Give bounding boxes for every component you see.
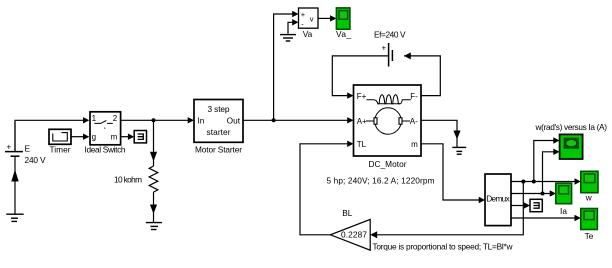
label Te: [585, 231, 594, 241]
wire: ground to Va - input: [288, 19, 299, 34]
wire: node down to resistor: [150, 120, 157, 166]
wire: battery Ef left to F+: [332, 56, 388, 99]
wire: F- up to battery Ef right (arrow into battery): [404, 52, 441, 95]
node junction (Out / Va tap): [272, 118, 276, 122]
label Ia: [560, 206, 567, 216]
label Ef=240 V: [374, 30, 406, 40]
svg-text:m: m: [411, 140, 418, 149]
svg-text:Out: Out: [227, 116, 241, 126]
terminator (demux out3): [530, 199, 542, 211]
scope w: [581, 171, 598, 192]
current arrow up: [11, 170, 18, 182]
Ideal Switch block: [90, 112, 121, 145]
node junction (Ia / XY riser): [541, 192, 545, 196]
svg-text:A+: A+: [357, 117, 367, 126]
svg-text:Timer: Timer: [50, 144, 71, 154]
ground (armature): [452, 147, 466, 154]
voltage measurement Va: [299, 8, 319, 28]
svg-text:240 V: 240 V: [25, 155, 46, 165]
svg-text:Te: Te: [585, 231, 594, 241]
svg-text:Ideal Switch: Ideal Switch: [85, 144, 126, 154]
DC motor block: [354, 85, 422, 156]
label Va: [303, 29, 313, 39]
svg-text:5 hp; 240V; 16.2 A; 1220rpm: 5 hp; 240V; 16.2 A; 1220rpm: [327, 176, 435, 186]
label 10 kohm: [114, 174, 142, 184]
wire: DC motor m to Demux: [421, 144, 485, 203]
svg-text:+: +: [301, 10, 306, 19]
label E: [25, 144, 31, 154]
wire: resistor to ground: [150, 192, 157, 223]
label Motor Starter: [195, 144, 242, 154]
svg-text:Va: Va: [303, 29, 313, 39]
svg-text:In: In: [198, 116, 205, 126]
Motor Starter block: [194, 100, 243, 143]
wire: Ideal Switch out to Motor Starter In: [121, 117, 194, 123]
svg-text:v: v: [310, 15, 314, 24]
resistor 10 kohm: [149, 166, 158, 192]
svg-text:Ia: Ia: [560, 206, 567, 216]
svg-text:Va_: Va_: [336, 29, 351, 39]
scope Ia: [556, 183, 572, 204]
battery Ef (field source): [389, 43, 393, 67]
svg-text:2: 2: [113, 114, 118, 123]
svg-text:TL: TL: [357, 140, 367, 149]
wire: Timer to Ideal Switch g: [71, 134, 89, 140]
battery E plus sign: [7, 143, 12, 152]
svg-text:+: +: [382, 44, 387, 53]
wire: A- to ground: [421, 120, 461, 147]
ground (battery E): [6, 214, 23, 221]
svg-text:DC_Motor: DC_Motor: [369, 159, 407, 169]
svg-text:E: E: [25, 144, 31, 154]
svg-text:Ef=240 V: Ef=240 V: [374, 30, 406, 40]
label w: [585, 192, 593, 202]
annotation: torque note: [373, 242, 514, 252]
battery Ef plus sign: [382, 44, 387, 53]
svg-text:F-: F-: [410, 92, 418, 101]
scope Va_: [336, 8, 350, 29]
wire: Demux out3 to terminator: [511, 202, 530, 208]
wire: Demux out2 (Ia) to scope Ia: [511, 190, 556, 196]
svg-text:g: g: [92, 133, 96, 142]
svg-text:10 kohm: 10 kohm: [114, 174, 142, 184]
wire: BL out up to TL input: [300, 141, 354, 235]
svg-text:m: m: [111, 133, 118, 142]
wire: Va v to scope Va_: [318, 15, 336, 21]
svg-text:1: 1: [92, 114, 97, 123]
wire: battery top rail to Ideal Switch port 1: [15, 117, 89, 152]
label Va_: [336, 29, 351, 39]
wire: w riser to XY scope input 1: [534, 137, 560, 181]
svg-text:A-: A-: [410, 117, 418, 126]
svg-text:BL: BL: [342, 208, 353, 218]
label DC_Motor: [369, 159, 407, 169]
field inductor icon: [367, 95, 411, 104]
scope Te: [581, 209, 598, 230]
wire: Ideal Switch m to terminator: [121, 134, 134, 140]
wire: tap up to Va + input: [274, 11, 299, 121]
terminator (switch m): [134, 131, 146, 143]
svg-text:w: w: [585, 192, 593, 202]
svg-text:Motor Starter: Motor Starter: [195, 144, 242, 154]
gain BL: [330, 219, 370, 250]
label w(rad's) versus Ia (A): [535, 122, 608, 132]
Demux block: [485, 174, 511, 226]
battery E (DC source): [5, 122, 23, 214]
ground (resistor): [146, 223, 162, 230]
svg-text:Demux: Demux: [486, 194, 510, 204]
armature icon: [375, 108, 401, 134]
label Ideal Switch: [85, 144, 126, 154]
svg-text:3 step: 3 step: [208, 104, 230, 114]
XY scope (w versus Ia): [560, 134, 583, 159]
wire: Motor Starter Out to DC motor A+: [243, 117, 354, 123]
svg-text:+: +: [7, 143, 12, 152]
ground (Va measurement): [280, 35, 296, 41]
Timer block: [49, 129, 71, 144]
node junction (w / XY riser): [532, 180, 536, 184]
wire: w feedback down and left to gain BL: [370, 182, 523, 239]
node junction (w / feedback): [521, 180, 525, 184]
wire: Demux out1 (w) to scope w: [511, 178, 581, 184]
value 240 V: [25, 155, 46, 165]
svg-text:0.2287: 0.2287: [341, 229, 367, 239]
svg-text:F+: F+: [357, 92, 367, 101]
wire: Demux out4 (Te) to scope Te: [511, 215, 581, 221]
node junction (switch out / resistor): [152, 118, 156, 122]
svg-text:starter: starter: [207, 127, 231, 137]
label BL: [342, 208, 353, 218]
wire: Ia riser to XY scope input 2: [543, 149, 560, 194]
label Timer: [50, 144, 71, 154]
svg-text:w(rad's) versus Ia (A): w(rad's) versus Ia (A): [535, 122, 608, 132]
svg-text:Torque is proportional to spee: Torque is proportional to speed; TL=Bl*w: [373, 242, 514, 252]
annotation: motor ratings: [327, 176, 435, 186]
